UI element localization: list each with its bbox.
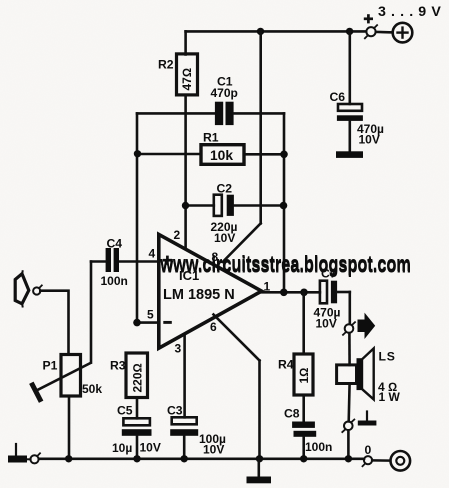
svg-text:R1: R1: [203, 131, 219, 145]
terminal supply circle with plus: [393, 23, 413, 43]
svg-text:50k: 50k: [82, 382, 102, 396]
resistor R3 body: [126, 353, 148, 398]
connector plug lower (circle with slash): [342, 420, 354, 433]
svg-text:100n: 100n: [101, 274, 128, 288]
connector input ground (circle with slash): [30, 453, 40, 463]
wire supply connector to terminal: [376, 31, 393, 34]
wire C6 bottom lead: [348, 121, 351, 151]
arrow output direction: [358, 313, 376, 339]
svg-text:C8: C8: [284, 407, 300, 421]
svg-text:1Ω: 1Ω: [297, 368, 311, 384]
wire C1 right lead to node B: [234, 112, 284, 115]
wire pin 6 diagonal: [214, 315, 260, 361]
node junction C3/rail: [181, 455, 188, 462]
wire R3 bottom lead: [136, 398, 139, 419]
wire pin 8 diagonal to op-amp: [223, 223, 261, 261]
wire C3 bottom lead: [183, 436, 186, 459]
node junction output / R4: [300, 289, 308, 297]
wire pin 3 lead down: [183, 336, 186, 417]
connector plug upper (circle with slash): [343, 322, 355, 335]
node junction pin5 / node A: [133, 319, 141, 327]
svg-text:10V: 10V: [140, 441, 161, 455]
wire P1 wiper diagonal: [36, 363, 91, 391]
connector 0 terminal (circle with slash): [363, 456, 373, 466]
wire node B vertical (output feedback): [283, 113, 286, 292]
node junction R1 right on node B: [280, 151, 288, 159]
wire pin 6 vertical to ground rail: [258, 361, 261, 459]
svg-text:3: 3: [175, 342, 182, 356]
svg-text:www.circuitsstrea.blogspot.com: www.circuitsstrea.blogspot.com: [160, 253, 411, 278]
node junction speaker/rail: [345, 455, 352, 462]
wire to bottom rail from speaker: [347, 430, 350, 459]
svg-text:C3: C3: [167, 404, 183, 418]
svg-text:8: 8: [212, 250, 219, 264]
node junction top rail / C6: [346, 28, 353, 35]
potentiometer P1 body: [61, 355, 81, 397]
resistor R1 body: [201, 145, 244, 165]
svg-text:C2: C2: [217, 182, 233, 196]
wire R4 top lead: [302, 292, 305, 354]
wire speaker branch upper vertical: [348, 292, 351, 324]
wire pin 8 supply line vertical: [259, 31, 262, 223]
wire C5 bottom lead: [136, 436, 139, 459]
capacitor C2 plates: [214, 195, 234, 216]
wire R1 right lead: [244, 153, 284, 156]
input jack icon: [15, 274, 29, 304]
node junction C5/rail: [133, 455, 140, 462]
node junction R1 left on node A: [134, 150, 141, 157]
wire C1 left lead from node A: [137, 112, 215, 115]
terminal output circle: [391, 451, 411, 471]
ground C6: [336, 151, 363, 158]
svg-text:2: 2: [174, 228, 181, 242]
svg-text:1: 1: [264, 280, 271, 294]
wire P1 wiper vertical: [90, 262, 93, 363]
node junction C2 left on pin2 line: [182, 202, 189, 209]
label + supply: [364, 14, 373, 23]
svg-text:6: 6: [210, 320, 217, 334]
wire C4 left lead: [91, 260, 106, 263]
wire C6 top lead: [348, 31, 351, 104]
svg-text:3 . . . 9 V: 3 . . . 9 V: [378, 4, 441, 20]
wire pin 5 lead: [137, 321, 159, 324]
wire R1 left lead: [137, 153, 201, 156]
svg-text:10V: 10V: [214, 231, 235, 245]
ground main bar: [247, 477, 272, 484]
ground speaker return: [358, 412, 377, 426]
ground input jack bar: [8, 444, 27, 463]
node junction C8/rail: [300, 455, 307, 462]
svg-text:470p: 470p: [211, 86, 238, 100]
svg-text:4: 4: [149, 247, 156, 261]
svg-text:R3: R3: [110, 359, 126, 373]
speaker LS symbol: [337, 348, 374, 399]
watermark www.circuitsstrea.blogspot.com: [159, 252, 411, 278]
wire top supply rail: [186, 30, 366, 33]
svg-text:10V: 10V: [203, 443, 224, 457]
wire pin 4 lead from C4: [119, 260, 159, 263]
resistor R4 body: [294, 354, 313, 395]
capacitor C6 plates: [337, 104, 363, 121]
node junction pin6/rail: [256, 455, 263, 462]
node junction output / node B: [280, 289, 288, 297]
wire P1 wiper arrow end bar: [33, 385, 41, 400]
svg-text:C5: C5: [117, 404, 133, 418]
wire C8 bottom lead: [302, 437, 305, 459]
capacitor C3 plates: [170, 417, 198, 436]
wire C2 right lead: [234, 204, 284, 207]
svg-text:LM 1895 N: LM 1895 N: [163, 287, 235, 303]
svg-text:0: 0: [365, 443, 372, 457]
svg-text:10V: 10V: [359, 133, 380, 147]
wire R2 bottom lead down to op-amp pin 2: [184, 95, 187, 248]
svg-text:5: 5: [147, 308, 154, 322]
node junction C2 right on node B: [280, 202, 288, 210]
wire R2 top lead: [184, 31, 187, 54]
node junction P1/rail: [65, 455, 72, 462]
svg-text:47Ω: 47Ω: [180, 68, 194, 91]
capacitor C7 plates: [320, 281, 337, 304]
wire C2 left lead: [186, 204, 214, 207]
wire bottom ground rail: [39, 457, 364, 460]
op-amp plus input mark: [163, 256, 172, 265]
wire speaker bottom lead: [347, 384, 350, 422]
resistor R2 body: [177, 54, 198, 95]
svg-text:10µ: 10µ: [112, 441, 132, 455]
op-amp minus input mark: [163, 321, 172, 324]
wire R4 bottom lead: [302, 395, 305, 422]
ground main stub: [257, 459, 260, 477]
svg-text:220Ω: 220Ω: [130, 363, 144, 392]
capacitor C1 plates: [215, 102, 234, 125]
wire output pin 1: [262, 291, 320, 294]
capacitor C5 plates: [122, 418, 152, 436]
op-amp U1 triangle: [159, 234, 262, 348]
capacitor C8 plates: [292, 422, 316, 437]
wire input ground bar to connector: [27, 458, 31, 460]
svg-text:10k: 10k: [210, 148, 233, 163]
svg-text:P1: P1: [43, 359, 58, 373]
wire node A vertical (feedback to pin 5): [136, 113, 139, 322]
wire C7 right lead: [337, 291, 350, 294]
wire speaker top lead: [348, 333, 351, 365]
svg-text:C4: C4: [107, 237, 123, 251]
connector supply plus (circle with slash): [365, 25, 377, 38]
wire input to P1 top: [40, 291, 68, 355]
svg-text:R2: R2: [158, 58, 174, 72]
connector input (circle with slash): [33, 285, 42, 294]
svg-text:10V: 10V: [316, 317, 337, 331]
svg-text:100n: 100n: [305, 440, 332, 454]
svg-text:C6: C6: [330, 90, 346, 104]
node junction top rail / pin8 line: [257, 28, 264, 35]
svg-text:R4: R4: [278, 358, 294, 372]
svg-text:1 W: 1 W: [379, 390, 401, 404]
capacitor C4 plates: [106, 248, 119, 272]
wire P1 bottom lead: [68, 396, 71, 459]
wire 0 connector to output terminal: [372, 459, 390, 462]
svg-text:LS: LS: [379, 350, 396, 364]
